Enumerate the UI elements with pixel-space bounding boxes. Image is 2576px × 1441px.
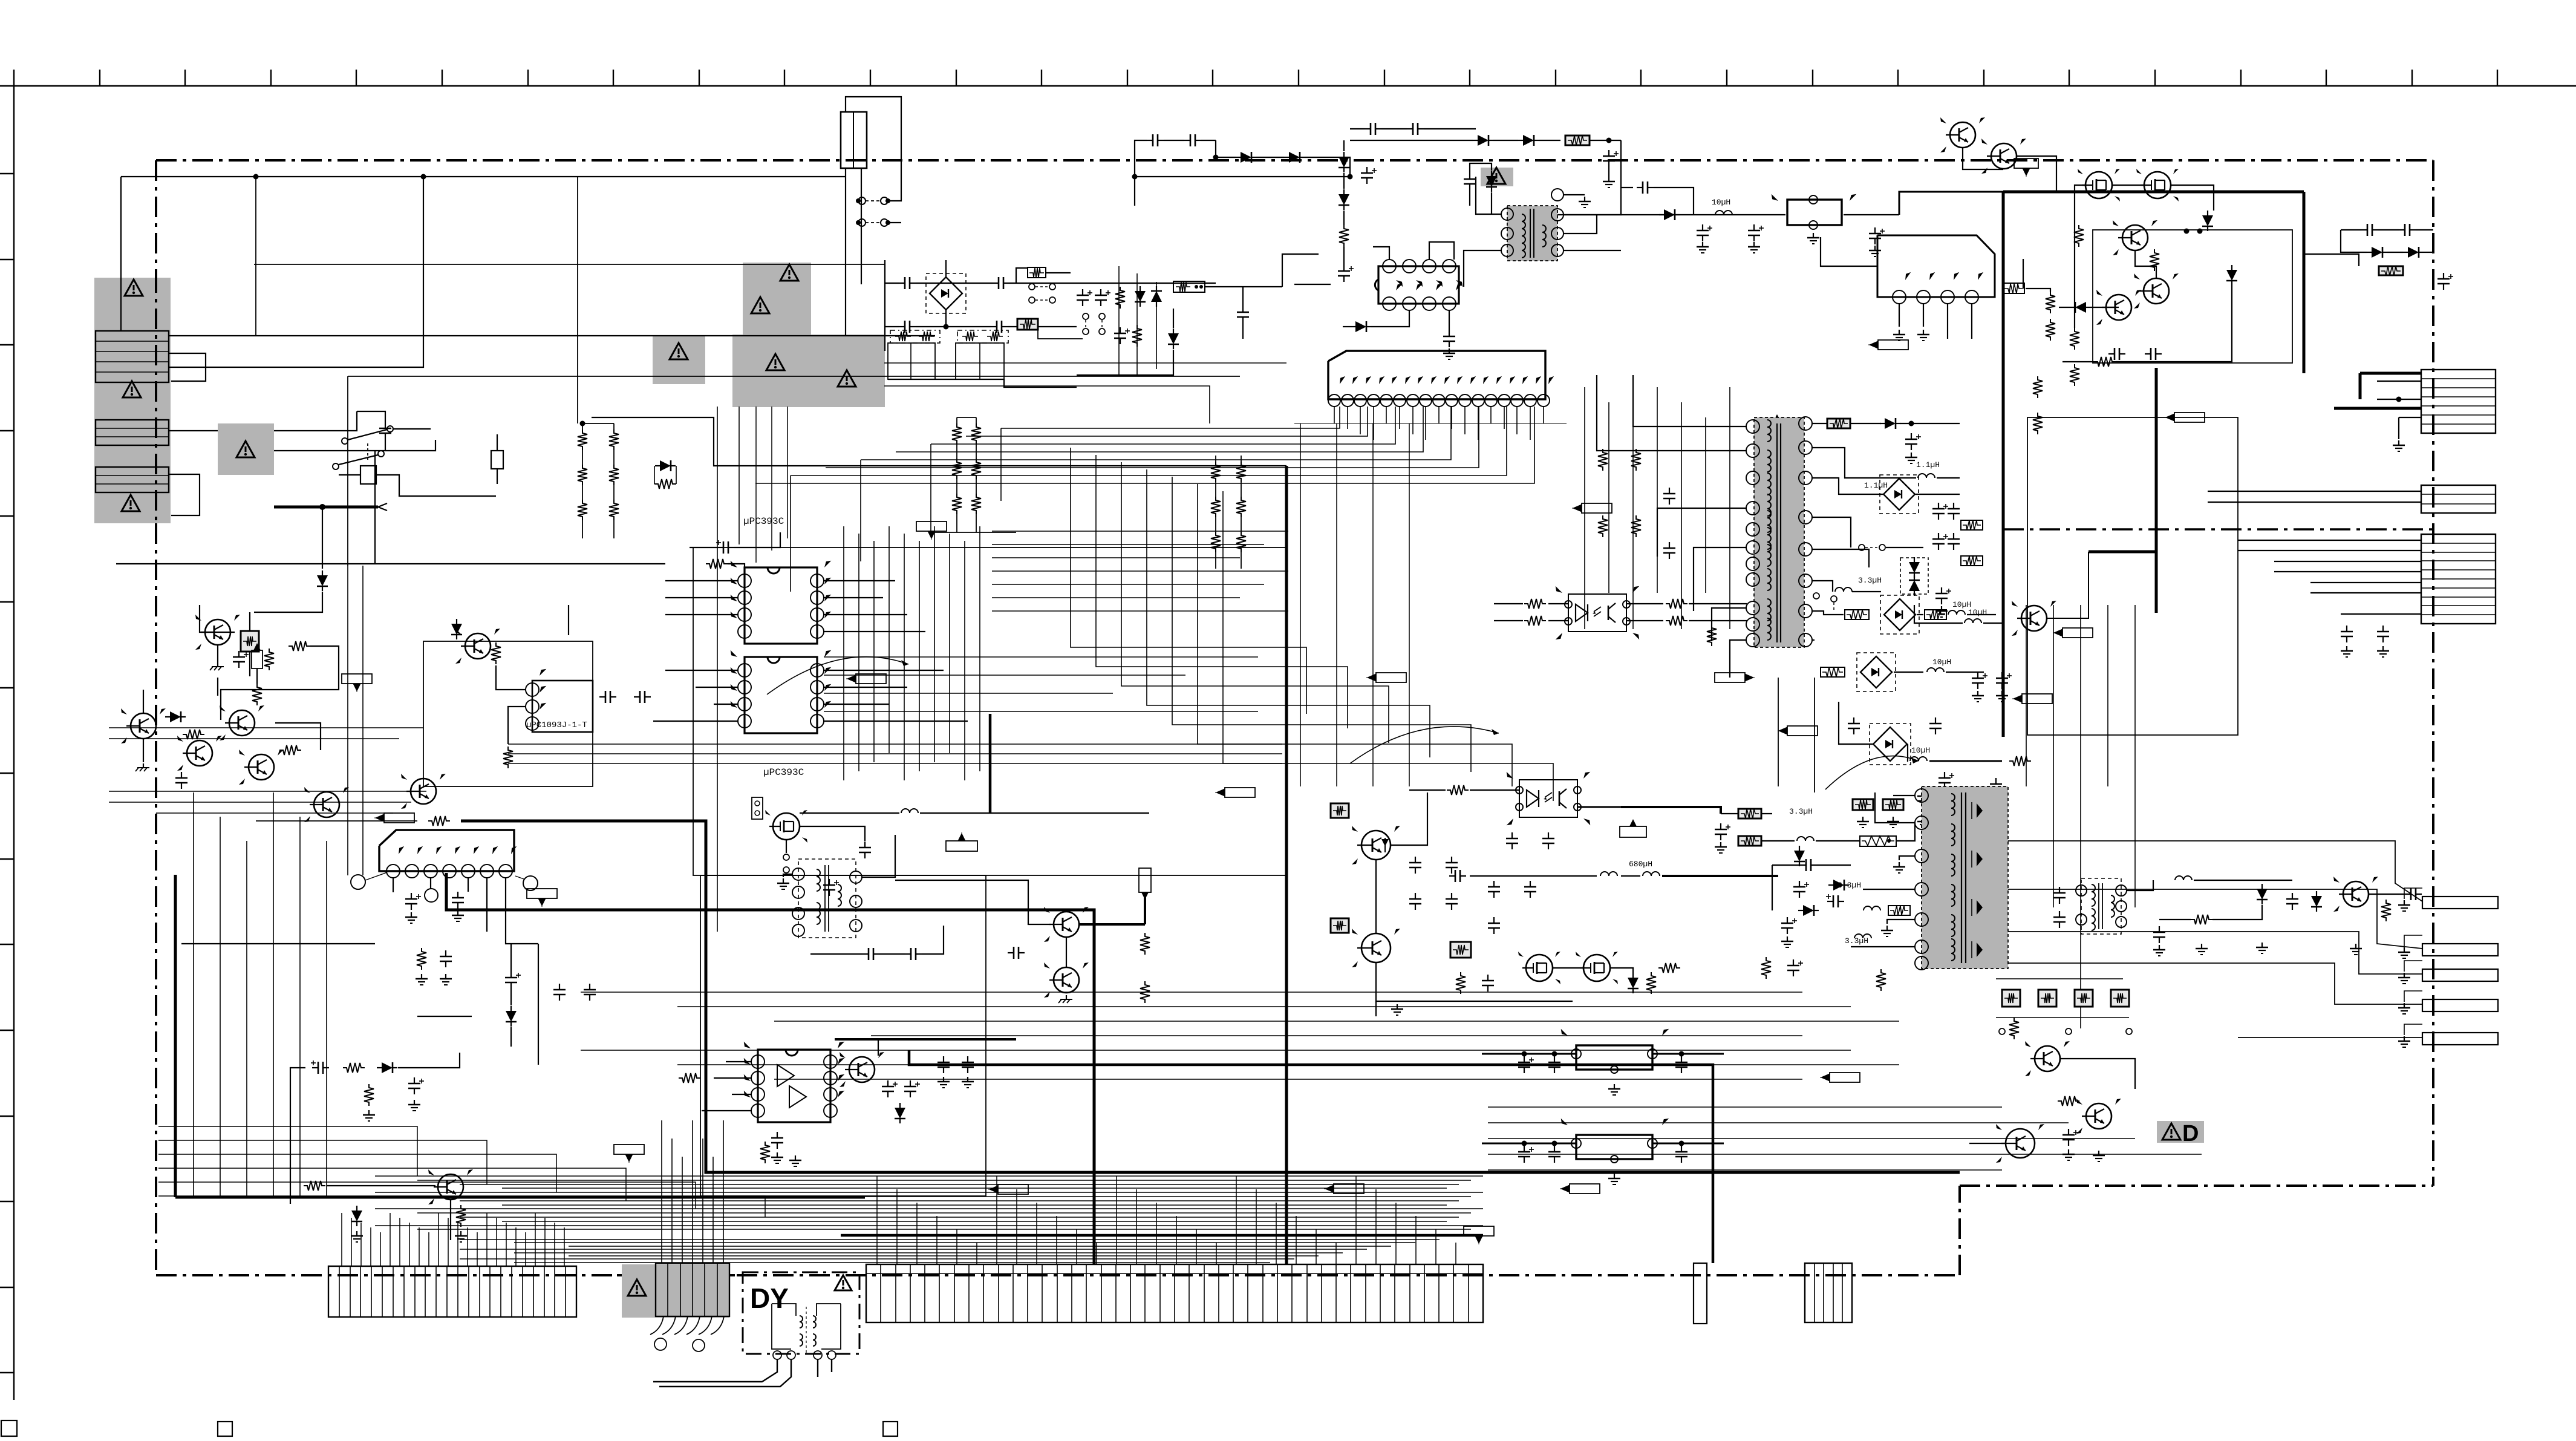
transistor Q611: [314, 792, 339, 817]
line filter LF601: [890, 330, 940, 343]
diode D: [2226, 270, 2237, 281]
capacitor C: [599, 696, 605, 698]
gnd: [1066, 995, 1067, 999]
capacitor C: [717, 547, 723, 548]
capacitor C: [385, 422, 386, 428]
transformer T640: [2081, 878, 2121, 934]
wire thick box: [2002, 192, 2005, 737]
fuse resistor: [1017, 319, 1038, 330]
resistor R: [2150, 249, 2159, 271]
wire thick rail4: [909, 1050, 1713, 1263]
junction: [253, 174, 259, 180]
wire: [1564, 215, 1597, 234]
diode D: [317, 575, 328, 586]
warning symbol: [125, 279, 143, 296]
wire: [1205, 286, 1282, 287]
wire: [1376, 962, 1573, 1001]
wire: [2377, 399, 2421, 400]
resistor box: [2003, 283, 2024, 293]
warning symbol: [122, 495, 140, 511]
wire: [510, 944, 512, 972]
registration mark: [883, 1422, 898, 1436]
wire: [885, 326, 899, 327]
diode D: [1803, 905, 1814, 916]
capacitor C el: [887, 1080, 889, 1086]
wire: [1118, 266, 1120, 375]
safety label T602: [1481, 168, 1513, 186]
wire: [824, 580, 895, 581]
chassis boundary top: [156, 159, 2433, 162]
fuse resistor: [1450, 942, 1471, 958]
resistor R: [2009, 1018, 2019, 1039]
net label: [2022, 694, 2052, 704]
diode zener: [1628, 978, 1639, 988]
wire: [1778, 678, 1779, 786]
gnd: [460, 1231, 461, 1236]
wire: [374, 451, 376, 564]
wire: [1590, 140, 1621, 141]
junction: [944, 324, 949, 330]
capacitor C: [2292, 893, 2293, 899]
wire: [824, 670, 944, 671]
chassis boundary step: [1958, 1186, 1961, 1275]
capacitor C: [1853, 717, 1854, 724]
wire: [835, 1038, 1016, 1041]
wire: [378, 503, 387, 507]
safety area left column: [94, 278, 171, 523]
wire: [274, 411, 357, 431]
diode D: [1664, 209, 1675, 220]
gnd: [783, 878, 784, 883]
wire bus left steps: [158, 1126, 417, 1176]
capacitor C: [1953, 533, 1954, 539]
wire: [885, 283, 899, 284]
wire thick: [2360, 372, 2421, 375]
junction: [1213, 155, 1219, 160]
connector CN9: [1805, 1263, 1852, 1322]
wire: [1969, 1143, 2006, 1144]
wire: [581, 992, 1802, 993]
resbox: [1845, 610, 1869, 619]
wire: [2194, 880, 2292, 881]
wire: [116, 563, 544, 564]
net label: [1334, 1184, 1364, 1194]
IC comparator µPC393C: [745, 567, 817, 644]
IC µPC1093J: [532, 681, 593, 732]
transistor Q: [438, 1174, 463, 1200]
wire: [1893, 795, 1915, 796]
ruler top scale: [0, 85, 2576, 87]
diode D: [1151, 291, 1162, 302]
net gnd label: [1620, 826, 1646, 837]
resistor ladder 2: [952, 423, 962, 444]
wire: [327, 1185, 435, 1186]
capacitor C electrolytic: [1100, 289, 1101, 295]
resistor R: [364, 1084, 374, 1106]
transistor Q: [465, 633, 491, 659]
wire: [256, 668, 258, 684]
wire: [1657, 508, 1747, 557]
pin circle: [351, 875, 365, 889]
hot-cold boundary: [2003, 528, 2433, 530]
wire bus weave: [843, 526, 844, 780]
wire: [290, 1068, 305, 1204]
net label: [998, 1184, 1028, 1194]
gnd: [1397, 1004, 1398, 1009]
net label: [1830, 1073, 1860, 1082]
wire: [254, 592, 322, 612]
wire: [2008, 963, 2422, 1004]
resistor box: [1028, 267, 1046, 278]
wire: [1894, 671, 1923, 673]
pin circle: [814, 1351, 822, 1359]
ruler left scale: [13, 86, 15, 1400]
wire: [169, 474, 200, 515]
net label: [2014, 158, 2038, 168]
wire thick rail2: [446, 873, 1094, 1264]
adjust arc: [1350, 727, 1499, 763]
wire: [1626, 620, 1663, 621]
bridge rectifier D601: [930, 277, 962, 310]
inductor: [1918, 474, 1935, 478]
capacitor C: [559, 984, 560, 990]
capacitor C: [1681, 1056, 1682, 1062]
transistor Q630: [1361, 831, 1391, 860]
capacitor C el: [1977, 672, 1978, 678]
resistor R: [264, 649, 274, 670]
capacitor C el: [1941, 587, 1942, 593]
wire: [1343, 326, 1351, 327]
wire: [786, 840, 787, 853]
wire: [690, 547, 717, 548]
wire: [1821, 237, 1877, 266]
diode D: [1168, 333, 1179, 344]
resistor R: [428, 816, 450, 826]
wire: [322, 507, 323, 569]
pin circle: [425, 889, 438, 902]
capacitor C: [1008, 952, 1014, 953]
chassis boundary bottom-right: [1960, 1184, 2433, 1187]
wire: [544, 563, 665, 564]
svg-text:3.3µH: 3.3µH: [1845, 936, 1868, 946]
wire: [450, 1200, 451, 1240]
resistor R: [1132, 325, 1142, 347]
net label: [856, 674, 886, 684]
svg-text:10µH: 10µH: [1968, 608, 1987, 617]
wire: [1373, 247, 1389, 260]
net label: [342, 674, 372, 684]
fuse resistor: [1565, 136, 1590, 145]
resistor R: [1339, 225, 1349, 247]
diode zener: [1355, 321, 1366, 332]
transistor Q641: [2006, 1129, 2035, 1158]
capacitor C: [943, 1056, 944, 1062]
capacitor C: [993, 283, 999, 284]
mosfet Q610: [773, 813, 800, 840]
warning symbol: [1487, 168, 1505, 184]
wire: [1429, 242, 1454, 260]
capacitor C: [1493, 881, 1495, 887]
wire: [2341, 229, 2361, 230]
fuse link: [858, 219, 866, 226]
diode zener: [2075, 302, 2086, 313]
wire: [1242, 287, 1244, 306]
wire thick: [1621, 807, 1721, 814]
wire: [2238, 1037, 2422, 1038]
net label: [1225, 788, 1255, 797]
wire: [255, 177, 256, 336]
wire: [2135, 250, 2156, 278]
gnd: [368, 1110, 370, 1115]
wire: [1886, 547, 1923, 548]
diode zener: [1339, 157, 1349, 168]
transistor Q640: [2035, 1046, 2060, 1071]
wire: [1476, 177, 1501, 214]
pin circle: [827, 1351, 836, 1359]
wire: [508, 707, 526, 744]
wire: [217, 678, 218, 696]
resistor ladder 3: [1211, 462, 1221, 482]
resbox: [1821, 667, 1845, 677]
resistor box: [1888, 906, 1910, 915]
gnd: [943, 1077, 944, 1082]
capacitor C: [457, 892, 458, 898]
capacitor C electrolytic: [1874, 227, 1876, 234]
label D board: [2157, 1121, 2204, 1143]
IC IC604 op-amp: [758, 1050, 830, 1122]
wire: [217, 645, 218, 662]
capacitor C: [2108, 353, 2115, 355]
wire: [1887, 920, 1915, 924]
capacitor C: [1469, 173, 1470, 179]
diode D: [1833, 880, 1844, 890]
diode D: [1241, 152, 1251, 163]
net label: [916, 521, 947, 531]
inductor: [901, 809, 918, 813]
capacitor C el: [1799, 881, 1800, 887]
wire: [1564, 214, 1754, 215]
net label: [1464, 1226, 1494, 1236]
svg-text:3.3µH: 3.3µH: [1789, 807, 1813, 816]
diode D: [895, 1108, 905, 1119]
connector tab: [2422, 999, 2498, 1011]
warning symbol: [1981, 809, 1999, 825]
wire: [888, 379, 1077, 387]
wire: [169, 353, 206, 381]
chassis boundary right: [2432, 160, 2434, 1186]
inductor: [1927, 668, 1944, 672]
pin circles yoke: [654, 1338, 667, 1350]
chassis boundary left overlay: [155, 272, 157, 529]
wire: [1134, 177, 1135, 206]
wire: [888, 222, 901, 223]
diode D: [1486, 176, 1497, 187]
wire long mid2: [347, 376, 348, 566]
wire: [1464, 250, 1501, 287]
fuse resistor: [2379, 266, 2403, 275]
mosfet Q632: [1526, 955, 1553, 981]
connector tab: [2422, 944, 2498, 956]
capacitor C electrolytic: [1753, 224, 1755, 230]
connector CN23: [2421, 534, 2496, 624]
capacitor C: [1681, 1146, 1682, 1152]
wire: [2341, 230, 2367, 252]
wire: [143, 690, 144, 713]
diode D: [506, 1011, 517, 1022]
resistor R: [279, 745, 301, 755]
wire: [884, 362, 1286, 364]
diode zener: [451, 624, 462, 635]
wire: [1066, 937, 1067, 967]
wire: [592, 417, 1286, 466]
wire thick vert: [174, 875, 177, 1197]
wire: [2026, 289, 2050, 292]
wire: [1449, 310, 1450, 330]
resistor R: [304, 1181, 325, 1191]
capacitor C el: [1524, 1146, 1525, 1152]
net label: [1878, 340, 1908, 350]
capacitor C electrolytic: [1608, 150, 1609, 156]
wire: [1626, 603, 1663, 604]
wire: [739, 407, 740, 544]
bridge rectifier: [1883, 479, 1915, 510]
resistor R: [2094, 357, 2116, 367]
resistor box: [1961, 520, 1983, 530]
transistor Q624: [2122, 225, 2148, 250]
capacitor C el: [1720, 823, 1721, 829]
resistor box current sense: [1173, 281, 1205, 292]
pin circle: [523, 876, 538, 890]
inductor: [1864, 906, 1880, 910]
safety area power switch: [218, 423, 274, 475]
wire: [717, 407, 718, 932]
svg-text:10µH: 10µH: [1712, 198, 1730, 207]
diode D: [1885, 418, 1896, 429]
pin circle: [773, 1351, 781, 1359]
wire: [1343, 140, 1345, 151]
net label: [527, 889, 557, 898]
jumper links: [1083, 313, 1089, 319]
gnd: [2346, 646, 2347, 651]
net label: [2174, 413, 2205, 422]
transistor Q627: [2021, 606, 2047, 631]
resistor R: [2074, 225, 2084, 247]
wire: [1482, 1143, 1576, 1145]
transistor Q: [849, 1057, 875, 1082]
wire: [2075, 185, 2085, 328]
wire: [1963, 148, 2003, 169]
wire: [1811, 639, 1815, 641]
resistor R: [1646, 972, 1656, 994]
gnd: [1899, 330, 1900, 335]
gnd: [2398, 440, 2399, 445]
capacitor C: [1800, 864, 1806, 866]
wire: [1851, 946, 1915, 947]
wire: [1730, 640, 1747, 678]
diode D: [1289, 152, 1300, 163]
connector CN22: [2421, 485, 2496, 513]
wire: [1470, 163, 1492, 173]
capacitor C: [777, 1132, 778, 1138]
wire: [1350, 140, 1473, 141]
wire bus weave: [992, 531, 1288, 532]
resistor box fusible: [241, 631, 259, 652]
resistor R: [706, 559, 728, 569]
wire: [1908, 744, 1908, 761]
capacitor C el: [510, 972, 512, 978]
net label: [946, 841, 977, 851]
net label: [1582, 503, 1612, 513]
IC IC620: [1877, 235, 1995, 297]
capacitor C: [1554, 1056, 1555, 1062]
resistor R: [1115, 287, 1125, 309]
transistor Q612: [411, 779, 436, 804]
wire thick: [2334, 407, 2421, 410]
wire: [1712, 608, 1747, 641]
connector tab: [2422, 969, 2498, 981]
capacitor C el: [1366, 167, 1368, 173]
inductor: [1600, 872, 1617, 876]
gnd: [1899, 862, 1900, 867]
warning symbol: [751, 297, 769, 313]
connector CN3: [96, 467, 169, 492]
capacitor C el: [2001, 672, 2003, 678]
gnd: [2159, 945, 2160, 950]
capacitor C: [312, 1067, 318, 1068]
capacitor C: [899, 326, 905, 327]
optocoupler PC602: [1519, 780, 1577, 817]
wire thick vert: [1285, 466, 1288, 1264]
capacitor C: [181, 772, 182, 778]
wire thick vert mid: [2155, 368, 2158, 613]
connector CN8: [1694, 1263, 1707, 1324]
warning symbol: [670, 343, 688, 359]
vlabel: [1139, 868, 1151, 892]
diode small: [1384, 838, 1386, 852]
resistor R: [417, 948, 426, 970]
wire: [275, 723, 321, 750]
connector CN5 (main bottom): [328, 1266, 576, 1317]
resistor R: [1876, 969, 1886, 991]
resistor R: [252, 684, 262, 705]
wire thick box top: [2003, 191, 2304, 194]
capacitor C snubber: [1365, 128, 1371, 129]
wire: [1899, 856, 1915, 860]
wire: [1038, 330, 1083, 339]
wire: [109, 727, 423, 728]
transformer T602: [1507, 206, 1557, 261]
capacitor C: [1147, 140, 1153, 141]
bridge rectifier: [1884, 599, 1916, 630]
wire: [2127, 880, 2153, 890]
wire: [274, 440, 435, 451]
junction: [580, 421, 585, 426]
safety area AC filter: [743, 263, 811, 335]
mosfet Q623: [2144, 172, 2171, 198]
wire: [726, 1061, 751, 1062]
wire: [884, 386, 1210, 423]
svg-text:1.1µH: 1.1µH: [1864, 481, 1888, 490]
wire: [2398, 417, 2399, 439]
wire bottom drops2: [876, 1176, 878, 1264]
wire: [1548, 620, 1568, 621]
IC IC605 regulator: [379, 830, 514, 871]
mosfet Q622: [2085, 172, 2112, 198]
diode pair box: [1900, 558, 1928, 594]
wire: [1144, 894, 1146, 924]
wire: [1875, 792, 1915, 823]
wire: [1694, 547, 1747, 611]
